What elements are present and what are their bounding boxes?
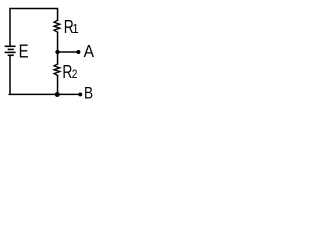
svg-text:B: B [84,84,93,103]
svg-text:A: A [84,41,94,61]
svg-text:R: R [62,62,72,82]
svg-text:2: 2 [72,68,78,81]
svg-text:E: E [19,41,29,62]
svg-text:1: 1 [72,21,79,36]
